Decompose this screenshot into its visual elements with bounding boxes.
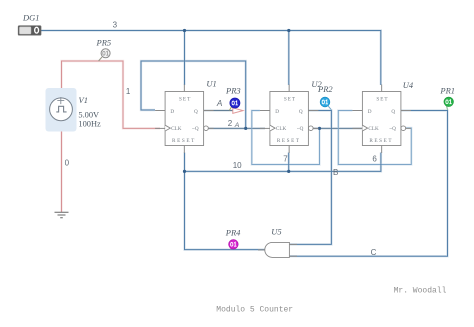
svg-text:6: 6 — [372, 155, 377, 164]
svg-text:U5: U5 — [271, 227, 281, 237]
svg-text:D: D — [368, 109, 372, 115]
svg-text:Modulo 5 Counter: Modulo 5 Counter — [216, 306, 293, 315]
svg-text:CLK: CLK — [276, 126, 287, 132]
svg-text:100Hz: 100Hz — [78, 120, 101, 129]
svg-text:3: 3 — [113, 21, 118, 30]
svg-text:D: D — [275, 109, 279, 115]
svg-text:D: D — [170, 109, 174, 115]
svg-text:PR4: PR4 — [225, 227, 241, 237]
svg-text:PR3: PR3 — [225, 85, 241, 95]
svg-text:2: 2 — [228, 119, 233, 128]
svg-text:PR5: PR5 — [96, 37, 112, 47]
svg-text:RESET: RESET — [369, 138, 393, 144]
svg-text:7: 7 — [283, 155, 288, 164]
svg-text:Mr. Woodall: Mr. Woodall — [394, 287, 447, 296]
svg-text:~Q: ~Q — [389, 126, 396, 132]
svg-text:U2: U2 — [311, 79, 322, 89]
svg-text:~Q: ~Q — [297, 126, 304, 132]
svg-text:5.00V: 5.00V — [78, 110, 99, 119]
svg-text:SET: SET — [376, 97, 388, 103]
svg-text:C: C — [371, 248, 377, 257]
svg-text:~Q: ~Q — [192, 126, 199, 132]
svg-text:V1: V1 — [79, 95, 88, 105]
svg-text:1: 1 — [126, 87, 131, 96]
svg-text:Q: Q — [299, 109, 303, 115]
svg-text:10: 10 — [233, 161, 242, 170]
svg-text:RESET: RESET — [277, 138, 301, 144]
svg-text:CLK: CLK — [171, 126, 182, 132]
svg-text:B: B — [333, 168, 338, 177]
svg-text:A: A — [216, 99, 223, 108]
svg-text:Q: Q — [194, 109, 198, 115]
svg-text:SET: SET — [284, 97, 296, 103]
svg-text:RESET: RESET — [172, 138, 196, 144]
svg-text:SET: SET — [179, 97, 191, 103]
svg-text:U1: U1 — [206, 79, 216, 89]
svg-text:PR1: PR1 — [439, 86, 455, 96]
svg-text:U4: U4 — [403, 80, 414, 90]
svg-text:A: A — [234, 122, 240, 129]
svg-text:Q: Q — [391, 109, 395, 115]
svg-text:DG1: DG1 — [22, 13, 40, 23]
svg-text:0: 0 — [65, 158, 70, 167]
svg-text:CLK: CLK — [368, 126, 379, 132]
